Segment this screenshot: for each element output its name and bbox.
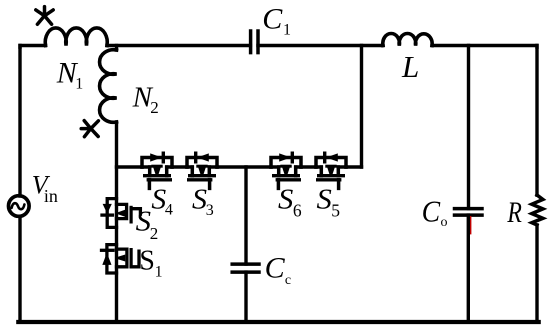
transistor S2 xyxy=(102,199,140,228)
body diode of S4 (arrow right) xyxy=(150,153,162,161)
wire N2 tap (top rail down to coil) xyxy=(115,46,118,51)
transistor S4 xyxy=(142,153,172,188)
svg-text:S: S xyxy=(136,207,151,238)
capacitor Cc xyxy=(232,264,259,272)
body arrow of S1 xyxy=(118,255,125,262)
svg-text:1: 1 xyxy=(155,263,163,280)
red lead segment below Co xyxy=(470,217,472,234)
wire N2 bottom through switch-row junction down to bottom rail xyxy=(115,122,118,322)
wire switch row segment 2 (S4 to S3) xyxy=(172,165,187,168)
wire right riser (row up to top rail) xyxy=(360,46,363,168)
capacitor C1 xyxy=(251,31,258,53)
resistor R xyxy=(532,195,543,225)
svg-text:2: 2 xyxy=(150,98,159,117)
wire top rail segment 4 (L to top-right corner, junction at Co tap) xyxy=(432,46,537,48)
transistor S5 xyxy=(316,153,346,188)
svg-text:4: 4 xyxy=(165,201,173,218)
transistor S6 xyxy=(271,153,301,188)
svg-text:S: S xyxy=(317,185,332,216)
wire switch row segment 1 (left junction to S4) xyxy=(117,165,143,168)
inductor N1 xyxy=(45,28,107,46)
svg-text:1: 1 xyxy=(75,75,83,92)
wire switch row segment 3 (S3 to S6, Cc junction at x=246) xyxy=(217,165,271,168)
body diode of S5 (arrow left) xyxy=(326,153,338,161)
wire R branch lower (R to bottom-right corner) xyxy=(535,225,538,322)
wire top rail segment 2 (N1 to C1 left plate, junction at N2 tap) xyxy=(107,44,250,47)
wire Co branch lower (Co to bottom rail) xyxy=(467,215,470,322)
wire left rail lower (Vin to bottom rail) xyxy=(18,216,21,322)
dot marker (asterisk) at N1 left xyxy=(36,7,53,25)
inductor N2 xyxy=(100,50,117,123)
svg-text:S: S xyxy=(192,185,207,216)
capacitor Co xyxy=(455,209,483,216)
svg-text:6: 6 xyxy=(293,200,302,220)
wire top rail segment 3 (C1 to L, junction at riser x=361.5) xyxy=(258,44,383,47)
wire switch row segment 4 (S6 to S5) xyxy=(301,165,316,168)
wire Cc branch upper (row junction down to Cc) xyxy=(244,167,247,264)
body arrow of S4 xyxy=(153,167,161,175)
svg-text:o: o xyxy=(441,215,448,230)
transistor S3 xyxy=(187,153,217,188)
svg-text:C: C xyxy=(262,3,283,36)
wire left rail upper (corner to Vin) xyxy=(18,46,21,197)
svg-text:S: S xyxy=(139,244,155,276)
svg-text:L: L xyxy=(401,49,419,84)
wire switch row segment 5 (S5 to right riser) xyxy=(346,165,362,168)
inductor L xyxy=(383,34,432,46)
transistor S1 xyxy=(102,245,140,273)
svg-text:R: R xyxy=(507,196,522,229)
svg-text:2: 2 xyxy=(150,224,159,243)
wire R branch upper (top-right corner to R) xyxy=(535,46,538,196)
body diode of S1 (arrow up) xyxy=(102,253,111,265)
svg-text:C: C xyxy=(422,194,441,229)
wire Co branch upper (top rail down to Co) xyxy=(467,46,470,209)
body diode of S6 (arrow right) xyxy=(279,153,291,161)
body diode of S2 (arrow down) xyxy=(103,204,112,214)
svg-text:3: 3 xyxy=(206,202,214,219)
wire bottom rail xyxy=(18,320,538,324)
source Vin xyxy=(8,196,29,217)
body diode of S3 (arrow left) xyxy=(197,153,209,161)
svg-text:c: c xyxy=(285,273,291,288)
body arrow of S6 xyxy=(282,167,290,175)
body arrow of S5 xyxy=(327,167,335,175)
wire Cc branch lower (Cc to bottom rail) xyxy=(244,272,247,322)
body arrow of S2 xyxy=(118,210,125,217)
svg-text:5: 5 xyxy=(331,200,340,220)
dot marker (asterisk) at N2 bottom xyxy=(81,121,98,137)
svg-text:C: C xyxy=(265,252,286,285)
wire top rail segment 1 (top-left corner to N1) xyxy=(20,46,46,48)
svg-text:S: S xyxy=(278,185,293,216)
svg-text:1: 1 xyxy=(283,22,291,39)
svg-text:in: in xyxy=(44,186,58,206)
body arrow of S3 xyxy=(198,167,206,175)
